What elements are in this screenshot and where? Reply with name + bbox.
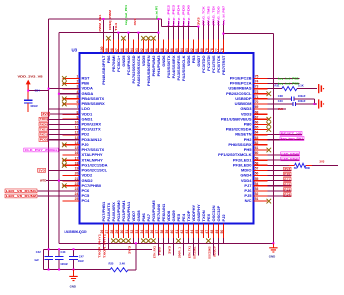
wire right row 21 <box>268 185 292 187</box>
capacitor C40 <box>293 102 296 106</box>
svg-text:3V3: 3V3 <box>319 160 324 164</box>
svg-text:6: 6 <box>76 100 78 104</box>
svg-text:20: 20 <box>75 172 79 176</box>
power symbol right 1 <box>318 84 320 93</box>
svg-text:CLK_PHY_25MHz: CLK_PHY_25MHz <box>25 148 59 152</box>
wire right row 20 <box>268 180 292 182</box>
junction rail right <box>272 242 274 244</box>
svg-text:86: 86 <box>170 48 174 52</box>
wire top pin 76 stub <box>222 21 224 40</box>
node LED_ETH0 label <box>281 152 300 156</box>
wire RESET_V8 row <box>268 134 303 136</box>
wire bottom pin 40 extension <box>172 238 174 243</box>
capacitor C38 <box>291 97 294 101</box>
wire top bus segment B <box>162 26 199 28</box>
wire C34 top <box>27 84 29 100</box>
svg-text:1uF: 1uF <box>34 258 39 262</box>
svg-text:200R_1: 200R_1 <box>177 246 181 258</box>
svg-text:92: 92 <box>140 48 144 52</box>
svg-text:key_led_PB0: key_led_PB0 <box>278 81 300 85</box>
svg-text:U3: U3 <box>72 47 78 52</box>
node PJ2 label right <box>284 183 292 187</box>
U3 right pin names <box>218 76 252 204</box>
wire LED_ETH1 row <box>268 159 300 161</box>
wire bottom stub 44 <box>192 243 194 255</box>
wire top pin 77 stub <box>217 21 219 40</box>
svg-text:39: 39 <box>165 230 169 234</box>
svg-text:PWM_FB1: PWM_FB1 <box>98 14 102 32</box>
wire key_img_PH2 row <box>268 139 305 141</box>
U3 bottom pin numbers <box>100 230 224 234</box>
IC U3 LM3S9B96 microcontroller body <box>80 53 254 224</box>
svg-text:10nF: 10nF <box>78 259 85 263</box>
svg-text:C34: C34 <box>35 89 41 93</box>
svg-text:R30: R30 <box>305 166 310 170</box>
no-connect marks bottom pins <box>111 239 211 244</box>
svg-text:LED_ETH1: LED_ETH1 <box>282 157 300 161</box>
wire left row 18 <box>48 169 80 171</box>
wire top pin 79 stub <box>207 21 209 40</box>
wire left row 23 <box>38 195 80 197</box>
svg-text:88: 88 <box>160 48 164 52</box>
svg-text:5: 5 <box>76 95 78 99</box>
svg-text:100nF: 100nF <box>30 104 38 108</box>
wire bottom stub 42 <box>182 243 184 255</box>
svg-text:71: 71 <box>255 95 259 99</box>
wire top bus segment C <box>223 33 273 35</box>
junction C47 bottom <box>73 269 75 271</box>
node PJ1 label right <box>284 177 292 181</box>
svg-text:C47: C47 <box>79 255 84 259</box>
wire C38 left <box>268 98 292 100</box>
svg-text:key_img_PH2: key_img_PH2 <box>281 136 304 140</box>
junction C42 top <box>48 248 50 250</box>
svg-text:100nF: 100nF <box>60 262 68 266</box>
svg-text:5.1K: 5.1K <box>298 84 304 88</box>
node RXD1 label left <box>39 133 48 137</box>
wire LDO row <box>49 108 80 110</box>
junction bus3 c24 <box>222 33 224 35</box>
svg-text:LED_V8_RUN2: LED_V8_RUN2 <box>6 194 37 198</box>
junction C34 branch <box>27 90 29 92</box>
svg-text:key_PD5: key_PD5 <box>182 4 186 26</box>
wire R30 right <box>312 164 338 166</box>
ground symbol left <box>73 270 75 277</box>
wire caps rail <box>44 248 153 250</box>
junction rail r25 <box>135 242 137 244</box>
U3 right pins 75-51 <box>254 78 268 201</box>
wire VDDA row <box>49 88 80 90</box>
wire C34 bottom stub <box>27 103 29 112</box>
svg-text:56: 56 <box>255 172 259 176</box>
wire VDD1 row <box>50 113 80 115</box>
svg-text:90: 90 <box>150 48 154 52</box>
ground symbol right <box>272 243 274 247</box>
svg-text:84: 84 <box>180 48 184 52</box>
wire bottom pin 33 extension <box>137 238 139 243</box>
wire LED_ETH0 row <box>268 154 300 156</box>
svg-text:29: 29 <box>115 230 119 234</box>
wire bottom pin 44 extension <box>192 238 194 243</box>
svg-text:TXOP_PHY1: TXOP_PHY1 <box>97 233 101 258</box>
svg-text:key_led_PF2: key_led_PF2 <box>155 6 159 19</box>
wire left vertical bus 1 <box>48 19 50 249</box>
svg-text:53: 53 <box>255 187 259 191</box>
svg-text:49: 49 <box>215 230 219 234</box>
svg-text:35: 35 <box>145 230 149 234</box>
U3 right pin numbers <box>255 75 259 202</box>
svg-text:50: 50 <box>220 230 224 234</box>
svg-text:1: 1 <box>76 75 78 79</box>
wire top pin 98 stub <box>112 26 114 40</box>
svg-text:75: 75 <box>255 75 259 79</box>
wire bottom pin 27 extension <box>107 238 109 249</box>
svg-text:93: 93 <box>135 48 139 52</box>
svg-text:PJ2: PJ2 <box>284 182 291 186</box>
wire left row 8 <box>48 118 80 120</box>
svg-text:38: 38 <box>160 230 164 234</box>
svg-text:74: 74 <box>255 80 259 84</box>
svg-text:51: 51 <box>255 197 259 201</box>
node 3V3 label VDD1 <box>42 112 50 116</box>
wire bottom pin 37 extension <box>157 238 159 243</box>
svg-text:60: 60 <box>255 151 259 155</box>
svg-text:PD3: PD3 <box>40 138 48 142</box>
wire R30 lead right <box>306 164 312 166</box>
svg-text:73: 73 <box>255 85 259 89</box>
wire right row 22 <box>268 190 292 192</box>
svg-text:2: 2 <box>76 80 78 84</box>
wire top pin 89 stub <box>157 19 159 40</box>
wire top pin 83 stub <box>187 21 189 40</box>
svg-text:RXD0: RXD0 <box>40 122 47 126</box>
svg-text:42: 42 <box>180 230 184 234</box>
wire R31 left <box>268 88 282 90</box>
svg-text:69: 69 <box>255 105 259 109</box>
svg-text:81: 81 <box>195 48 199 52</box>
svg-text:46: 46 <box>200 230 204 234</box>
wire left row 10 <box>48 129 80 131</box>
wire bottom stub 45 <box>197 243 199 255</box>
svg-text:PC4: PC4 <box>82 198 91 203</box>
svg-text:26: 26 <box>100 230 104 234</box>
wire key_led_PB0 row <box>268 83 300 85</box>
wire top bus jog 1 <box>161 19 163 27</box>
svg-text:37: 37 <box>155 230 159 234</box>
junction bus2 c7 <box>137 32 139 34</box>
junction bus2 c11 <box>157 32 159 34</box>
svg-text:40: 40 <box>170 230 174 234</box>
wire left row 9 <box>48 123 80 125</box>
resistor R25 <box>110 268 128 272</box>
svg-text:LM3S9B96-IQC80: LM3S9B96-IQC80 <box>65 230 87 234</box>
svg-text:30: 30 <box>120 230 124 234</box>
wire caps bottom rail <box>44 269 111 271</box>
svg-text:3V3: 3V3 <box>42 112 49 116</box>
wire key_led_PB1 row <box>268 77 300 79</box>
svg-text:TXD1: TXD1 <box>40 127 48 131</box>
svg-text:PJ2: PJ2 <box>221 214 226 222</box>
U3 left pin numbers <box>75 75 79 202</box>
node RXD0 label left <box>39 122 48 126</box>
svg-text:31: 31 <box>125 230 129 234</box>
wire top pin 78 stub <box>212 21 214 40</box>
wire left row 22 <box>38 190 80 192</box>
svg-text:96: 96 <box>120 48 124 52</box>
svg-text:3V3: 3V3 <box>278 107 283 111</box>
capacitor C47 <box>73 249 75 256</box>
wire R25 right <box>128 269 136 271</box>
junction C43 top <box>58 248 60 250</box>
wire R30 lead left <box>289 164 295 166</box>
svg-text:R31: R31 <box>275 84 280 88</box>
node key_img_PH2 label <box>280 137 304 141</box>
svg-text:JTAG_TCK: JTAG_TCK <box>202 6 206 26</box>
wire top pin 100 stub <box>102 19 104 40</box>
U3 left pins 1-25 <box>63 78 80 201</box>
svg-text:67: 67 <box>255 115 259 119</box>
node LED_V8_RUN1 label <box>5 189 37 193</box>
svg-text:PJ4: PJ4 <box>284 193 291 197</box>
svg-text:59: 59 <box>255 156 259 160</box>
wire bottom pin 50 extension <box>222 238 224 243</box>
svg-text:R25: R25 <box>109 261 114 265</box>
power symbol right 2 <box>318 99 320 108</box>
junction busB c19 <box>197 26 199 28</box>
svg-text:TX4: TX4 <box>114 22 118 31</box>
svg-text:C42: C42 <box>36 250 41 254</box>
svg-text:97: 97 <box>115 48 119 52</box>
svg-text:48: 48 <box>210 230 214 234</box>
svg-text:18: 18 <box>75 161 79 165</box>
node TXD0 label left <box>39 117 48 121</box>
svg-text:ETH_RX1: ETH_RX1 <box>152 245 156 258</box>
svg-text:22: 22 <box>75 182 79 186</box>
svg-text:82: 82 <box>190 48 194 52</box>
svg-text:2.4K: 2.4K <box>120 261 126 265</box>
wire top pin 81 stub <box>197 27 199 40</box>
svg-text:C43: C43 <box>61 250 66 254</box>
node LED_ETH1 label <box>281 157 300 161</box>
wire bottom stub 38 <box>162 243 164 255</box>
svg-text:PJ0: PJ0 <box>284 172 291 176</box>
wire top pin 86 stub <box>172 21 174 40</box>
svg-text:54: 54 <box>255 182 259 186</box>
wire top pin 85 stub <box>177 21 179 40</box>
svg-text:72: 72 <box>255 90 259 94</box>
junction GNDA <box>58 93 60 95</box>
wire R25 up <box>135 243 137 269</box>
svg-text:RESET_V8: RESET_V8 <box>281 131 302 135</box>
junction bus1 c0 <box>102 18 104 20</box>
capacitor C42 <box>48 249 50 256</box>
svg-text:key_PD4: key_PD4 <box>177 4 181 26</box>
node PJ4 label right <box>284 193 292 197</box>
wire C38 right <box>294 98 315 100</box>
U3 top pins 100-76 <box>103 40 223 54</box>
svg-text:27: 27 <box>105 230 109 234</box>
wire bottom pin 49 extension <box>217 238 219 243</box>
svg-text:LED_ETH0: LED_ETH0 <box>282 152 300 156</box>
wire top bus net 3V3 segment A <box>49 18 162 20</box>
svg-text:N/C: N/C <box>245 198 252 203</box>
svg-text:34: 34 <box>140 230 144 234</box>
svg-text:80: 80 <box>200 48 204 52</box>
svg-text:66: 66 <box>255 121 259 125</box>
U3 top pin numbers <box>100 46 224 52</box>
svg-text:GND: GND <box>269 255 275 259</box>
wire caps left jog <box>43 249 45 269</box>
node RESET_V8 label <box>280 131 302 135</box>
wire right row 19 <box>268 175 292 177</box>
svg-text:64: 64 <box>255 131 259 135</box>
svg-text:41: 41 <box>175 230 179 234</box>
svg-text:98: 98 <box>110 48 114 52</box>
wire to power 2 <box>315 103 318 105</box>
wire bottom pin 39 extension <box>167 238 169 243</box>
svg-text:100: 100 <box>100 46 104 52</box>
svg-text:57: 57 <box>255 167 259 171</box>
svg-text:C38: C38 <box>278 94 283 98</box>
wire C34 branch to bus <box>28 90 48 92</box>
svg-text:FREQ_PWM: FREQ_PWM <box>108 9 112 30</box>
wire bottom rail A <box>59 242 274 244</box>
svg-text:65: 65 <box>255 126 259 130</box>
svg-text:14: 14 <box>75 141 79 145</box>
svg-text:RXD1: RXD1 <box>40 133 47 137</box>
svg-text:77: 77 <box>215 48 219 52</box>
svg-text:TXD0: TXD0 <box>40 117 48 121</box>
wire bottom pin 42 extension <box>182 238 184 243</box>
wire R30 left <box>268 164 290 166</box>
node CLK_PHY_25MHz label <box>24 148 59 152</box>
svg-text:47: 47 <box>205 230 209 234</box>
wire 3V3 row r18 <box>268 169 292 171</box>
svg-text:63: 63 <box>255 136 259 140</box>
svg-text:OSC32K2: OSC32K2 <box>207 246 211 259</box>
svg-text:17: 17 <box>75 156 79 160</box>
svg-text:5K: 5K <box>294 166 297 170</box>
svg-text:44: 44 <box>190 230 194 234</box>
svg-text:99: 99 <box>105 48 109 52</box>
svg-text:95: 95 <box>125 48 129 52</box>
svg-text:100nF: 100nF <box>298 99 306 103</box>
U3 top pin names <box>101 55 226 87</box>
node 3V3 label left r18 <box>38 168 46 172</box>
resistor R31 <box>282 87 297 91</box>
svg-text:key_bel_PF1: key_bel_PF1 <box>124 4 128 25</box>
svg-text:36: 36 <box>150 230 154 234</box>
junction C43 bottom <box>58 269 60 271</box>
svg-text:85: 85 <box>175 48 179 52</box>
wire GNDA row <box>59 93 80 95</box>
svg-text:PB7/TRST: PB7/TRST <box>221 55 226 75</box>
junction bus1 c11 <box>157 18 159 20</box>
svg-text:key_bl_PB7: key_bl_PB7 <box>222 5 226 25</box>
wire top pin 93 stub <box>137 33 139 40</box>
svg-text:key_PE3: key_PE3 <box>172 4 176 26</box>
capacitor C34 <box>24 100 33 103</box>
node PD3 label left <box>39 138 48 142</box>
svg-text:3V3: 3V3 <box>133 18 137 26</box>
wire bottom pin 32 extension <box>132 238 134 243</box>
junction caps join <box>314 103 316 105</box>
wire bottom stub 49 <box>217 243 219 255</box>
node PJ3 label right <box>284 188 292 192</box>
wire bottom pin 45 extension <box>197 238 199 243</box>
svg-text:78: 78 <box>210 48 214 52</box>
svg-text:3V3: 3V3 <box>38 168 45 172</box>
node TXD1 label left <box>39 128 48 132</box>
wire top pin 84 stub <box>182 21 184 40</box>
svg-text:VDD_3V3_V8: VDD_3V3_V8 <box>18 74 44 78</box>
wire top bus 2 <box>59 32 158 34</box>
U3 bottom pin names <box>101 200 226 222</box>
svg-text:28: 28 <box>110 230 114 234</box>
node LED_V8_RUN2 label <box>5 194 37 198</box>
junction VDDA <box>48 88 50 90</box>
power symbol VDD_3V3_V8 <box>27 84 29 91</box>
svg-text:JTAG_TDO: JTAG_TDO <box>217 6 221 26</box>
wire top pin 87 stub <box>167 21 169 40</box>
no-connect marks left pins <box>62 76 67 188</box>
wire bottom stub 37 <box>157 243 159 255</box>
junction C47 top <box>73 248 75 250</box>
wire CLK_PHY row <box>59 149 80 151</box>
node 3V3 label right r18 <box>284 167 292 171</box>
svg-text:70: 70 <box>255 100 259 104</box>
U3 left pin names <box>82 76 108 204</box>
svg-text:91: 91 <box>145 48 149 52</box>
wire caps join vertical <box>314 99 316 104</box>
wire right row 23 <box>268 195 292 197</box>
svg-text:JTAG_TDI: JTAG_TDI <box>212 6 216 26</box>
junction bus2 c3 <box>117 32 119 34</box>
U3 bottom pins 26-50 <box>103 224 223 239</box>
wire top pin 80 stub <box>202 21 204 40</box>
svg-text:83: 83 <box>185 48 189 52</box>
junction WTD <box>58 180 60 182</box>
wire 3V3 row right <box>268 108 287 110</box>
svg-text:key_led_PB1: key_led_PB1 <box>278 76 300 80</box>
svg-text:3V3: 3V3 <box>197 16 201 25</box>
no-connect marks top pins <box>106 36 156 41</box>
wire C40 left <box>268 103 293 105</box>
wire right vertical bus <box>272 34 274 244</box>
svg-text:55: 55 <box>255 177 259 181</box>
svg-text:79: 79 <box>205 48 209 52</box>
svg-text:68: 68 <box>255 110 259 114</box>
junction bus2 c5 <box>127 32 129 34</box>
svg-text:100nF: 100nF <box>298 94 306 98</box>
svg-text:25: 25 <box>75 197 79 201</box>
svg-text:GND: GND <box>70 284 76 288</box>
wire R31 right <box>297 88 317 90</box>
wire left vertical bus 2 <box>58 33 60 244</box>
wire bottom stub 48 <box>212 243 214 255</box>
svg-text:C40: C40 <box>278 99 283 103</box>
svg-text:JTAG_TMS: JTAG_TMS <box>207 6 211 26</box>
wire left row 12 <box>48 139 80 141</box>
wire bottom pin 43 extension <box>187 238 189 243</box>
junction C42 bottom <box>48 269 50 271</box>
wire top pin 95 stub <box>127 33 129 40</box>
wire C40 right <box>295 103 314 105</box>
svg-text:87: 87 <box>165 48 169 52</box>
svg-text:3V3: 3V3 <box>127 245 131 254</box>
wire bottom pin 38 extension <box>162 238 164 243</box>
svg-text:3V3: 3V3 <box>284 167 291 171</box>
